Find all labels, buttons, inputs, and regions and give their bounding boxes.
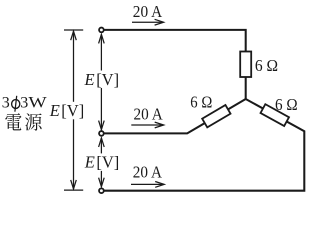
- label source kanji: DEN (electric): [5, 113, 21, 130]
- current arrow 20A on phase B: [131, 124, 163, 126]
- terminal C (open circle): [99, 188, 104, 193]
- current arrow 20A on phase A: [132, 21, 163, 23]
- svg-text:W: W: [28, 95, 47, 112]
- terminal B (open circle): [99, 131, 104, 136]
- svg-text:[V]: [V]: [96, 152, 119, 171]
- label source kanji: GEN (origin): [25, 113, 41, 130]
- phi symbol (drawn): [12, 100, 20, 109]
- dimension line E[V] between terminals A and B: [100, 35, 102, 130]
- svg-text:E: E: [84, 70, 95, 89]
- svg-text:[V]: [V]: [61, 101, 84, 120]
- dimension tick top for overall E[V]: [64, 29, 83, 31]
- svg-text:6 Ω: 6 Ω: [190, 93, 212, 112]
- dimension line overall E[V]: [73, 31, 75, 188]
- svg-text:20 A: 20 A: [133, 2, 162, 21]
- wire right phase C branch: star point N diagonal down, vertical drop, and bottom run to terminal C: [104, 99, 304, 191]
- svg-text:E: E: [49, 101, 60, 120]
- svg-text:3: 3: [20, 95, 28, 112]
- dimension arrowhead up (B-C): [99, 138, 105, 147]
- wire top phase A: terminal to corner to resistor R1: [104, 30, 246, 52]
- dimension arrowhead up (A-B): [99, 34, 105, 43]
- white gap behind E[V] label (left overall): [49, 102, 86, 120]
- svg-text:20 A: 20 A: [133, 162, 162, 181]
- resistor R2 6 ohm (left diagonal): [202, 105, 230, 127]
- current arrow 20A on phase C: [131, 183, 164, 185]
- resistor R1 6 ohm (vertical): [240, 52, 251, 78]
- white gap behind E[V] label (A-B): [83, 71, 119, 89]
- dimension arrowhead down (A-B): [99, 121, 105, 130]
- terminal A (open circle): [99, 28, 104, 33]
- dimension arrowhead down (overall E[V]): [71, 180, 77, 189]
- wire R1 bottom to star point N: [245, 77, 247, 100]
- svg-text:3: 3: [2, 95, 10, 112]
- dimension tick bottom for overall E[V]: [64, 189, 83, 191]
- wire middle phase B: horizontal run then diagonal to star point N: [104, 99, 246, 133]
- dimension arrowhead up (overall E[V]): [71, 31, 77, 40]
- svg-text:20 A: 20 A: [134, 104, 163, 123]
- svg-text:[V]: [V]: [96, 70, 119, 89]
- svg-text:6 Ω: 6 Ω: [275, 95, 298, 114]
- resistor R3 6 ohm (right diagonal): [261, 104, 289, 126]
- svg-text:6 Ω: 6 Ω: [255, 56, 278, 75]
- white gap behind E[V] label (B-C): [83, 153, 121, 171]
- dimension arrowhead down (B-C): [99, 178, 105, 187]
- svg-text:E: E: [84, 152, 95, 171]
- dimension line E[V] between terminals B and C: [100, 138, 102, 186]
- node N (star/neutral junction): [245, 98, 247, 100]
